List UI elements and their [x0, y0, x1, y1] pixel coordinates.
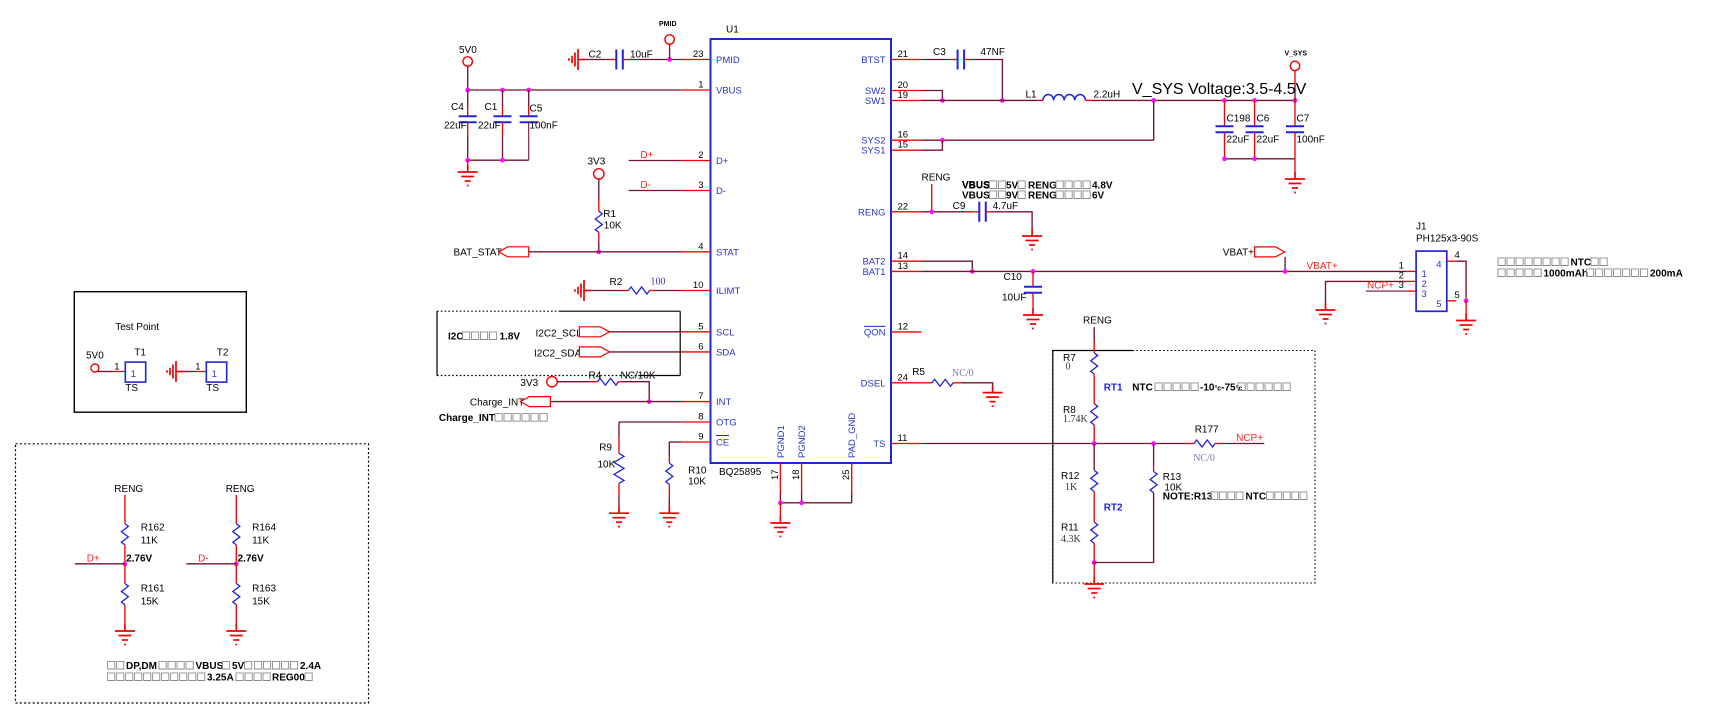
wire R2 left — [591, 290, 622, 292]
wire TS net — [922, 443, 1188, 445]
svg-text:VBAT+: VBAT+ — [1307, 261, 1338, 272]
svg-text:BTST: BTST — [861, 55, 885, 66]
wire CE — [669, 441, 681, 443]
svg-text:DP,DM: DP,DM — [126, 661, 157, 672]
resistor R11 — [1091, 522, 1098, 543]
terminal 5V0 testpoint — [91, 364, 99, 372]
svg-text:13: 13 — [898, 261, 909, 272]
terminal V_SYS — [1290, 61, 1299, 70]
note NTC CJK 功能设置： — [1155, 383, 1198, 391]
wire BTST to C3 — [922, 59, 952, 61]
connector J1 body — [1416, 251, 1447, 311]
wire SYS vertical drop — [1153, 100, 1155, 140]
svg-text:2.2uH: 2.2uH — [1094, 89, 1121, 100]
svg-text:Test Point: Test Point — [115, 322, 159, 333]
svg-text:NTC: NTC — [1571, 258, 1592, 269]
svg-text:1.8V: 1.8V — [500, 332, 521, 343]
svg-text:R4: R4 — [589, 371, 602, 382]
svg-text:9V: 9V — [1006, 191, 1019, 202]
wire C4 bottom lead — [467, 122, 469, 136]
I2C note CJK 通信电平 — [463, 332, 497, 340]
svg-text:1K: 1K — [1065, 482, 1078, 493]
inductor L1 — [1043, 95, 1085, 101]
svg-text:Charge_INT: Charge_INT — [470, 398, 524, 409]
J1 pin 2 stub — [1406, 280, 1416, 282]
svg-text:100: 100 — [651, 277, 666, 288]
ground PGND — [770, 516, 790, 537]
svg-text:CE: CE — [716, 438, 729, 449]
wire cap ground bus — [468, 159, 529, 161]
svg-text:RENG: RENG — [1083, 316, 1112, 327]
junction R13/TS — [1151, 441, 1156, 446]
svg-text:REG00: REG00 — [272, 673, 305, 684]
note DPDM line2 paren — [305, 673, 312, 681]
capacitor C7 — [1286, 126, 1304, 132]
svg-text:SW1: SW1 — [865, 96, 886, 107]
note DPDM line2 CJK 要求软件设置输入电流为 — [108, 673, 205, 681]
capacitor C5 — [520, 116, 538, 122]
svg-text:22uF: 22uF — [1257, 135, 1280, 146]
ground J1 pin2 — [1316, 303, 1336, 324]
svg-text:R164: R164 — [252, 523, 276, 534]
svg-text:R161: R161 — [141, 584, 165, 595]
svg-text:C198: C198 — [1227, 114, 1251, 125]
NTC note box solid edges — [1053, 351, 1133, 584]
wire NTC ground stem — [1093, 563, 1095, 578]
svg-text:1.74K: 1.74K — [1063, 414, 1089, 425]
wire node to R161 — [124, 564, 126, 584]
ground C2 — [569, 49, 585, 70]
wire C2 left — [585, 59, 610, 61]
wire SYS2 — [922, 139, 1154, 141]
resistor R8 — [1091, 404, 1098, 425]
svg-text:6V: 6V — [1092, 191, 1105, 202]
junction C1 bottom — [500, 158, 505, 163]
svg-text:5: 5 — [1455, 290, 1460, 301]
U1 pin 12 QON stub — [891, 331, 922, 333]
svg-text:BQ25895: BQ25895 — [719, 467, 762, 478]
svg-text:J1: J1 — [1416, 222, 1427, 233]
svg-text:RENG: RENG — [226, 484, 255, 495]
svg-text:PAD_GND: PAD_GND — [847, 413, 858, 458]
svg-text:D-: D- — [640, 180, 651, 191]
svg-text:2: 2 — [698, 150, 703, 161]
junction D+ node — [123, 561, 128, 566]
capacitor C6 — [1246, 126, 1264, 132]
U1 pin 16 SYS2 stub — [891, 139, 922, 141]
resistor R2 — [628, 287, 649, 294]
wire PGND bus — [780, 502, 851, 504]
wire SW2 jog — [922, 91, 943, 101]
J1 pin 4 stub — [1447, 260, 1456, 262]
svg-text:1: 1 — [114, 362, 119, 373]
note RENG line2 comma — [1018, 191, 1025, 199]
ground 5V0 caps — [458, 165, 478, 186]
svg-text:TS: TS — [206, 383, 219, 394]
wire PMID terminal drop lower — [669, 49, 671, 60]
svg-text:4: 4 — [1455, 250, 1460, 261]
junction 5V0/C4 — [465, 88, 470, 93]
wire L1 right lead — [1085, 99, 1091, 101]
svg-text:STAT: STAT — [716, 247, 739, 258]
note RENG line1 comma — [1018, 181, 1025, 189]
wire C1 bottom lead lower — [502, 136, 504, 160]
svg-text:DSEL: DSEL — [861, 378, 886, 389]
resistor R13 — [1150, 472, 1157, 493]
junction RENG — [929, 209, 934, 214]
svg-text:15K: 15K — [141, 597, 159, 608]
svg-text:4.7uF: 4.7uF — [993, 201, 1019, 212]
wire R13 bottom to node — [1094, 493, 1153, 563]
svg-text:Charge_INT: Charge_INT — [439, 413, 495, 424]
resistor R5 — [932, 379, 953, 386]
wire L1 left lead — [1037, 99, 1043, 101]
wire C9 left lead — [963, 211, 979, 213]
svg-text:NTC: NTC — [1132, 383, 1153, 394]
wire R177 right lead — [1215, 443, 1221, 445]
svg-text:SDA: SDA — [716, 347, 736, 358]
note battery line1 CJK 电阻 — [1591, 258, 1607, 266]
svg-text:INT: INT — [716, 397, 732, 408]
DP DM note box — [16, 444, 369, 703]
svg-text:PGND2: PGND2 — [797, 425, 808, 458]
U1 pin 21 BTST stub — [891, 59, 922, 61]
ground R161 — [115, 624, 135, 645]
U1 pin 3 D- stub — [682, 190, 711, 192]
capacitor C9 — [979, 202, 986, 222]
svg-text:7: 7 — [698, 391, 703, 402]
junction VBAT+ — [1283, 269, 1288, 274]
U1 pin 17 PGND1 stub — [779, 463, 781, 494]
note DPDM line1 CJK 管脚设置 — [159, 661, 193, 669]
wire R10 top lead — [668, 457, 670, 463]
wire TS to R12 — [1093, 444, 1095, 471]
svg-text:QON: QON — [864, 327, 886, 338]
svg-text:11K: 11K — [252, 536, 269, 547]
IC U1 BQ25895 charger body — [711, 39, 892, 463]
svg-text:22uF: 22uF — [1227, 135, 1250, 146]
svg-text:1: 1 — [212, 369, 217, 380]
svg-text:RENG: RENG — [1028, 191, 1057, 202]
svg-text:NOTE:R13: NOTE:R13 — [1163, 492, 1213, 503]
svg-text:T2: T2 — [217, 348, 229, 359]
note DPDM line1 paren — [245, 661, 252, 669]
junction PGND2 — [799, 500, 804, 505]
wire C7 bottom lead — [1294, 132, 1296, 159]
svg-text:C6: C6 — [1257, 114, 1270, 125]
svg-text:RENG: RENG — [114, 484, 143, 495]
junction C6 top — [1252, 98, 1257, 103]
resistor R163 — [233, 584, 240, 605]
svg-text:NCP+: NCP+ — [1236, 433, 1263, 444]
svg-text:D-: D- — [198, 554, 209, 565]
wire C2 left lead — [610, 59, 616, 61]
note NTC CJK 可以正常充电 — [1238, 383, 1290, 391]
junction C4 bottom — [465, 158, 470, 163]
capacitor C2 — [616, 50, 623, 70]
svg-text:TS: TS — [873, 439, 885, 450]
flag Charge_INT — [520, 397, 550, 407]
wire pin 17 to PGND bus — [779, 494, 781, 503]
U1 pin 7 INT stub — [682, 401, 711, 403]
ground NTC — [1084, 577, 1104, 598]
wire 5V0 to T1 — [98, 371, 114, 373]
svg-text:18: 18 — [791, 469, 802, 480]
svg-text:C1: C1 — [485, 102, 498, 113]
wire C198 top lead — [1224, 100, 1226, 126]
U1 pin 1 VBUS stub — [682, 89, 711, 91]
wire V_SYS cap ground bus — [1225, 158, 1296, 160]
wire R177 to NCP+ — [1221, 443, 1264, 445]
wire C10 bottom lead — [1032, 293, 1034, 308]
svg-text:SYS1: SYS1 — [861, 146, 885, 157]
svg-text:10K: 10K — [688, 477, 706, 488]
wire R13 top — [1153, 444, 1155, 466]
svg-text:R9: R9 — [599, 442, 612, 453]
svg-text:C2: C2 — [589, 50, 602, 61]
svg-text:4.3K: 4.3K — [1061, 534, 1082, 545]
U1 pin 12 QON overline — [864, 325, 886, 327]
svg-text:12: 12 — [898, 321, 909, 332]
svg-text:R12: R12 — [1061, 471, 1080, 482]
svg-text:NC/0: NC/0 — [952, 368, 974, 379]
U1 pin 20 SW2 stub — [891, 90, 922, 92]
U1 pin 25 PAD_GND stub — [851, 463, 853, 494]
svg-text:2.76V: 2.76V — [238, 554, 264, 565]
note battery line2 CJK 建议充电电流为 — [1587, 269, 1648, 277]
wire R161 to ground — [124, 605, 126, 624]
svg-text:ILIMT: ILIMT — [716, 286, 740, 297]
wire R162 to node — [124, 545, 126, 564]
terminal 3V3 R4 — [547, 377, 557, 387]
svg-text:D+: D+ — [87, 554, 100, 565]
svg-text:100nF: 100nF — [1297, 135, 1325, 146]
wire C4 top lead upper — [467, 90, 469, 106]
wire R5 left lead — [922, 382, 933, 384]
svg-text:15: 15 — [898, 140, 909, 151]
svg-text:RT1: RT1 — [1104, 383, 1123, 394]
wire C2 right lead — [623, 59, 629, 61]
wire R177 left lead — [1187, 443, 1194, 445]
capacitor C4 — [459, 116, 477, 122]
resistor R162 — [121, 524, 128, 545]
wire BAT2 jog — [922, 261, 973, 271]
svg-text:RENG: RENG — [858, 207, 885, 218]
svg-text:5: 5 — [698, 321, 703, 332]
wire SW1 to L1 — [922, 99, 1038, 101]
svg-text:NC/10K: NC/10K — [621, 371, 656, 382]
wire 3V3 to R4 — [557, 381, 590, 383]
wire R2 right lead — [649, 290, 655, 292]
svg-text:R162: R162 — [141, 523, 165, 534]
svg-text:RENG: RENG — [922, 173, 951, 184]
svg-text:R177: R177 — [1195, 424, 1219, 435]
wire D+ — [75, 563, 125, 565]
U1 pin 23 PMID stub — [682, 59, 711, 61]
flag BAT_STAT — [499, 247, 529, 257]
wire V_SYS ground stem — [1294, 159, 1296, 172]
junction C10 top — [1031, 269, 1036, 274]
svg-text:NTC: NTC — [1246, 492, 1267, 503]
svg-text:3: 3 — [1422, 289, 1427, 300]
wire RENG drop R162 — [124, 495, 126, 524]
svg-text:C5: C5 — [530, 104, 543, 115]
svg-text:100nF: 100nF — [530, 121, 558, 132]
resistor R164 — [233, 524, 240, 545]
wire V_SYS rail — [1092, 99, 1296, 101]
capacitor C3 — [958, 50, 965, 70]
junction D- node — [234, 561, 239, 566]
wire CE down to R10 — [668, 442, 670, 457]
svg-text:PGND1: PGND1 — [776, 425, 787, 458]
flag I2C2_SDA — [579, 347, 609, 357]
svg-text:24: 24 — [898, 372, 909, 383]
U1 pin 5 SCL stub — [682, 331, 711, 333]
wire 5V0 terminal to VBUS bus — [467, 66, 469, 90]
svg-text:I2C2_SCL: I2C2_SCL — [536, 328, 583, 339]
ground R2 — [575, 280, 591, 301]
svg-text:C3: C3 — [933, 47, 946, 58]
wire R164 to node — [235, 545, 237, 564]
svg-text:5: 5 — [1436, 299, 1441, 310]
wire C5 bottom lead — [528, 122, 530, 160]
wire R163 to ground — [235, 605, 237, 624]
ground T2 — [167, 361, 183, 382]
U1 pin 24 DSEL stub — [891, 382, 922, 384]
wire C1 top lead — [502, 106, 504, 116]
wire R8 to TS — [1093, 425, 1095, 444]
svg-text:C9: C9 — [953, 201, 966, 212]
wire C6 top lead — [1254, 100, 1256, 126]
wire V_SYS terminal drop lower — [1294, 85, 1296, 100]
wire R9 to ground — [618, 497, 620, 506]
U1 pin 13 BAT1 stub — [891, 270, 922, 272]
flag I2C2_SCL — [579, 327, 609, 337]
svg-text:R2: R2 — [610, 277, 623, 288]
svg-text:VBUS: VBUS — [716, 86, 742, 97]
net NCP+ underline — [1366, 290, 1407, 292]
wire RENG drop R164 — [235, 495, 237, 524]
wire J1 pin4 to pin5 — [1456, 261, 1466, 301]
svg-text:VBUS: VBUS — [962, 191, 990, 202]
svg-text:1: 1 — [131, 369, 136, 380]
ground R5 — [983, 386, 1003, 407]
wire pin 25 to PGND bus — [851, 494, 853, 503]
wire SCL — [609, 331, 681, 333]
terminal 5V0 — [463, 57, 472, 66]
wire C3 right lead — [964, 59, 970, 61]
wire C1 bottom lead — [502, 122, 504, 136]
resistor R177 — [1194, 440, 1215, 447]
svg-text:1000mAh: 1000mAh — [1544, 269, 1588, 280]
wire RENG pin to C9 — [922, 211, 974, 213]
svg-text:C7: C7 — [1297, 114, 1310, 125]
wire ground to T2 — [183, 371, 197, 373]
wire C3 left lead — [952, 59, 958, 61]
wire SYS1 jog — [922, 140, 943, 150]
junction R11/R13 bottom — [1092, 560, 1097, 565]
junction C6 bottom — [1252, 156, 1257, 161]
svg-text:9: 9 — [698, 432, 703, 443]
svg-text:C10: C10 — [1004, 272, 1023, 283]
svg-text:2.4A: 2.4A — [300, 661, 321, 672]
svg-text:R163: R163 — [252, 584, 276, 595]
svg-text:D+: D+ — [640, 150, 653, 161]
note battery line1 CJK 外接锂电池包，带 — [1498, 258, 1568, 266]
svg-text:10K: 10K — [604, 221, 622, 232]
junction PGND1 — [778, 500, 783, 505]
wire C2 to PMID pin — [629, 59, 682, 61]
wire OTG — [619, 421, 682, 423]
wire C9 to ground — [992, 212, 1032, 229]
wire C6 bottom lead — [1254, 132, 1256, 159]
wire pin 18 to PGND bus — [801, 494, 803, 503]
wire 3V3 to R1 upper — [598, 179, 600, 201]
note RENG line1 CJK 输入 — [990, 181, 1006, 189]
ground V_SYS caps — [1285, 172, 1305, 193]
svg-text:10UF: 10UF — [1002, 293, 1026, 304]
svg-text:15K: 15K — [252, 597, 270, 608]
svg-text:D+: D+ — [716, 156, 729, 167]
svg-text:PMID: PMID — [716, 55, 740, 66]
J1 pin 3 stub — [1406, 290, 1416, 292]
wire R10 to ground lead — [668, 484, 670, 498]
wire C198 bottom lead — [1224, 132, 1226, 159]
U1 pin 15 SYS1 stub — [891, 149, 922, 151]
J1 pin 1 stub — [1406, 270, 1416, 272]
svg-text:17: 17 — [770, 469, 781, 480]
wire R1 to STAT lower — [598, 241, 600, 252]
wire T1 pin lead — [113, 371, 125, 373]
junction C198 bottom — [1222, 156, 1227, 161]
wire R10 to ground — [668, 498, 670, 506]
wire INT — [550, 401, 681, 403]
svg-text:3: 3 — [698, 180, 703, 191]
wire R4 right lead — [618, 381, 624, 383]
junction J1 pin5 — [1464, 298, 1469, 303]
note DPDM line1 CJK 输入电流为 — [255, 661, 298, 669]
test point T2 body — [206, 362, 226, 382]
svg-text:D-: D- — [716, 186, 726, 197]
wire V_SYS terminal drop — [1294, 71, 1296, 85]
junction R8/R12/TS — [1092, 441, 1097, 446]
svg-text:5V0: 5V0 — [459, 45, 477, 56]
resistor R161 — [121, 584, 128, 605]
note R13 CJK 设置不需 — [1211, 492, 1243, 500]
junction R4/INT — [647, 399, 652, 404]
wire R2 left lead — [622, 290, 628, 292]
ground R10 — [659, 506, 679, 527]
svg-text:22uF: 22uF — [444, 121, 467, 132]
J1 pin 5 stub — [1447, 300, 1456, 302]
ground R163 — [226, 624, 246, 645]
svg-text:V_SYS: V_SYS — [1285, 51, 1308, 58]
junction SYS2/SYS1 — [940, 138, 945, 143]
wire STAT — [529, 251, 682, 253]
note Charge_INT CJK 调试检查使用 — [495, 414, 547, 422]
svg-text:T1: T1 — [134, 348, 146, 359]
svg-text:3V3: 3V3 — [588, 157, 606, 168]
wire D- net — [629, 190, 682, 192]
U1 pin 9 CE stub — [682, 441, 711, 443]
wire J1 pin5 ground stem — [1465, 301, 1467, 314]
svg-text:11K: 11K — [141, 536, 158, 547]
svg-text:R5: R5 — [912, 367, 925, 378]
svg-text:3.25A: 3.25A — [207, 673, 234, 684]
note DPDM line1 CJK （5V） — [223, 661, 230, 669]
wire R7 to R8 — [1093, 374, 1095, 404]
junction PMID net — [667, 57, 672, 62]
